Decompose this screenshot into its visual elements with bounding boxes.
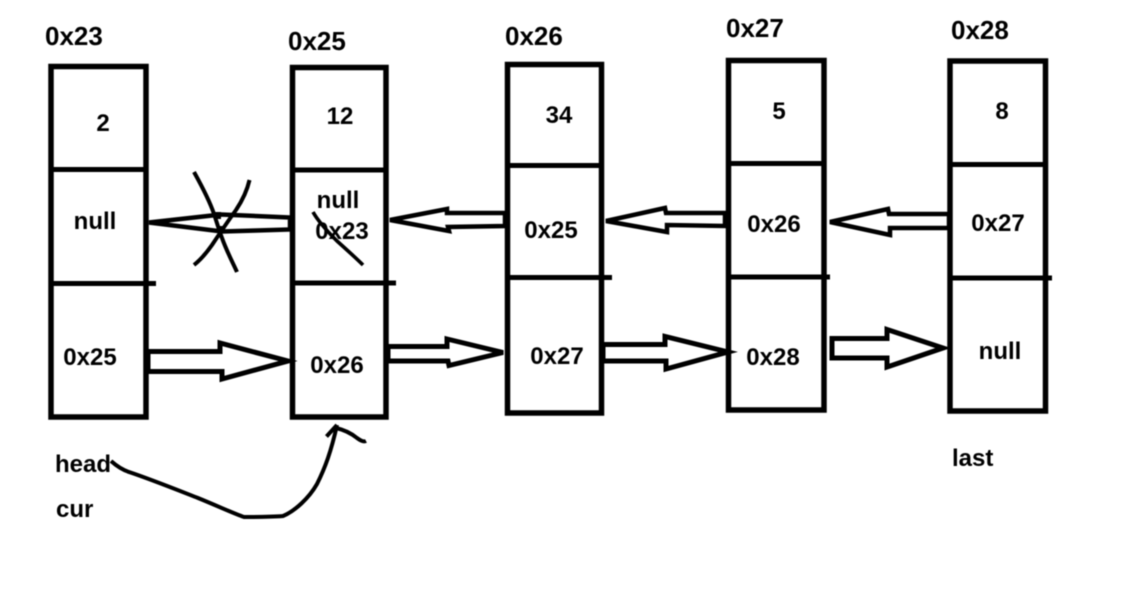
head/cur curved pointer to node 0x25 xyxy=(111,425,337,517)
svg-text:0x26: 0x26 xyxy=(505,21,563,51)
prev arrow 0x27 to 0x26 xyxy=(606,208,725,232)
svg-text:0x23: 0x23 xyxy=(45,21,103,51)
prev arrow 0x28 to 0x27 xyxy=(830,209,949,235)
node 0x23 box xyxy=(51,67,156,418)
svg-text:head: head xyxy=(55,451,111,478)
svg-text:null: null xyxy=(74,208,117,235)
next arrow 0x25 to 0x26 xyxy=(388,339,503,366)
svg-text:0x25: 0x25 xyxy=(63,344,116,371)
svg-text:0x27: 0x27 xyxy=(530,343,583,370)
svg-text:5: 5 xyxy=(772,98,785,125)
prev arrow 0x26 to 0x25 xyxy=(390,209,505,231)
node 0x25 box xyxy=(293,68,397,418)
svg-text:0x25: 0x25 xyxy=(288,26,346,56)
svg-text:34: 34 xyxy=(546,102,573,129)
svg-text:0x26: 0x26 xyxy=(310,352,363,379)
svg-text:null: null xyxy=(317,187,360,214)
strikethrough over 0x23 xyxy=(313,212,363,265)
svg-text:2: 2 xyxy=(96,110,109,137)
svg-text:12: 12 xyxy=(327,103,354,130)
next arrow 0x26 to 0x27 xyxy=(603,337,728,370)
pointer arrowhead left barb xyxy=(327,425,338,437)
svg-text:0x27: 0x27 xyxy=(726,13,784,43)
scribble ink blob lower xyxy=(219,226,225,233)
svg-text:0x25: 0x25 xyxy=(524,217,577,244)
pointer arrowhead right stroke xyxy=(336,428,366,441)
X scribble stroke 2 xyxy=(194,180,250,265)
next arrow 0x23 to 0x25 xyxy=(148,343,288,379)
node 0x27 box xyxy=(729,61,831,411)
node 0x26 box xyxy=(508,65,613,414)
svg-text:last: last xyxy=(952,445,993,472)
svg-text:0x28: 0x28 xyxy=(746,344,799,371)
prev arrow 0x25 to 0x23 xyxy=(149,215,290,232)
svg-text:8: 8 xyxy=(995,98,1008,125)
svg-text:0x27: 0x27 xyxy=(971,210,1024,237)
node 0x28 box xyxy=(950,61,1052,411)
next arrow 0x27 to 0x28 xyxy=(832,330,943,368)
svg-text:0x28: 0x28 xyxy=(951,15,1009,45)
svg-text:cur: cur xyxy=(56,496,93,523)
scribble ink blob upper xyxy=(214,212,221,219)
X scribble stroke 1 xyxy=(194,172,237,272)
svg-text:0x23: 0x23 xyxy=(315,218,368,245)
svg-text:null: null xyxy=(979,338,1022,365)
svg-text:0x26: 0x26 xyxy=(747,211,800,238)
